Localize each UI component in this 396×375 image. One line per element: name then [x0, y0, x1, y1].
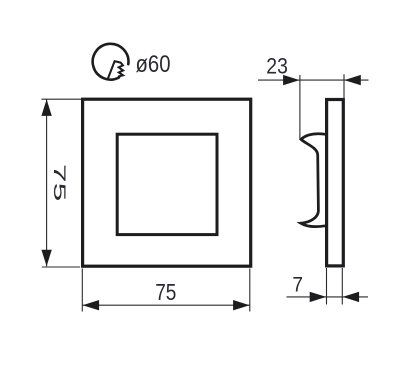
23 dim line — [258, 79, 369, 81]
svg-text:75: 75 — [50, 164, 69, 202]
front view inner square — [117, 134, 217, 234]
bottom dim line — [83, 304, 250, 306]
7 dim arrow pointing right — [310, 292, 327, 302]
7 dim extension line left — [326, 268, 328, 305]
7 dim arrow pointing left — [343, 292, 360, 302]
23 dim extension line left — [299, 75, 301, 140]
bottom dim arrow right — [233, 300, 250, 310]
bottom dim extension line right — [249, 269, 251, 312]
drill bit with serrated edge — [108, 61, 123, 78]
left dim extension line bottom — [42, 266, 80, 268]
23 dim extension line right — [343, 74, 345, 99]
svg-text:75: 75 — [155, 279, 176, 305]
23 dim arrow pointing left — [344, 75, 361, 85]
left dim arrow up — [41, 99, 51, 116]
23 dim arrow pointing right — [283, 75, 300, 85]
7 dim line — [287, 296, 369, 298]
side view spring clip profile — [301, 134, 326, 227]
left dim arrow down — [41, 250, 51, 267]
left dim line — [46, 99, 48, 266]
bottom dim arrow left — [83, 300, 100, 310]
side view frame profile rectangle — [327, 100, 344, 266]
drill-hole icon circle — [93, 44, 129, 80]
svg-text:ø60: ø60 — [136, 52, 171, 78]
svg-text:23: 23 — [266, 54, 288, 79]
front view outer frame 75x75 — [83, 99, 251, 266]
svg-text:7: 7 — [292, 273, 303, 297]
left dim extension line top — [42, 98, 82, 100]
7 dim extension line right — [341, 268, 343, 305]
bottom dim extension line left — [81, 269, 83, 312]
